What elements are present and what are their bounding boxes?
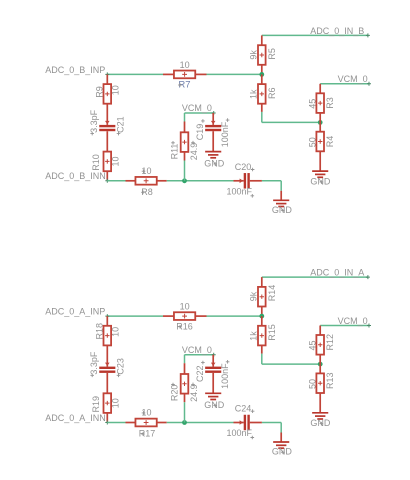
svg-text:C21: C21	[115, 116, 125, 133]
svg-text:R20: R20	[170, 385, 180, 402]
svg-text:24.9: 24.9	[189, 143, 199, 161]
svg-text:R6: R6	[267, 87, 277, 99]
svg-text:C23: C23	[115, 358, 125, 375]
svg-text:R4: R4	[325, 136, 335, 148]
svg-text:R10: R10	[91, 154, 101, 171]
svg-text:1k: 1k	[249, 89, 259, 99]
svg-text:10: 10	[111, 156, 121, 166]
svg-text:R13: R13	[325, 372, 335, 389]
svg-text:1k: 1k	[249, 331, 259, 341]
svg-text:50: 50	[308, 137, 318, 147]
svg-text:R11: R11	[170, 144, 180, 160]
svg-text:C20: C20	[235, 162, 252, 172]
svg-text:VCM_0: VCM_0	[182, 103, 212, 113]
svg-text:ADC_0_B_INN: ADC_0_B_INN	[45, 171, 106, 181]
svg-text:50: 50	[308, 379, 318, 389]
svg-text:10: 10	[180, 302, 190, 312]
svg-text:C22: C22	[195, 365, 205, 382]
svg-text:10: 10	[180, 60, 190, 70]
svg-text:24.9: 24.9	[189, 384, 199, 402]
svg-text:R5: R5	[267, 48, 277, 60]
svg-text:100nF: 100nF	[227, 186, 253, 196]
svg-text:GND: GND	[204, 158, 225, 168]
svg-text:9k: 9k	[249, 50, 259, 60]
svg-text:GND: GND	[310, 176, 331, 186]
svg-text:10: 10	[110, 85, 120, 95]
svg-text:GND: GND	[272, 447, 293, 457]
svg-text:ADC_0_IN_A: ADC_0_IN_A	[310, 268, 364, 278]
svg-text:100nF: 100nF	[220, 363, 230, 389]
svg-text:45: 45	[308, 340, 318, 350]
svg-text:C19: C19	[195, 124, 205, 141]
svg-text:ADC_0_A_INP: ADC_0_A_INP	[45, 307, 105, 317]
svg-text:R18: R18	[94, 323, 104, 340]
svg-text:GND: GND	[272, 205, 293, 215]
svg-text:10: 10	[110, 327, 120, 337]
svg-text:ADC_0_A_INN: ADC_0_A_INN	[45, 413, 106, 423]
svg-text:R19: R19	[91, 396, 101, 413]
svg-text:9k: 9k	[249, 291, 259, 301]
svg-text:R15: R15	[267, 324, 277, 341]
svg-text:3.3pF: 3.3pF	[89, 351, 99, 375]
svg-text:3.3pF: 3.3pF	[89, 109, 99, 133]
svg-text:GND: GND	[204, 400, 225, 410]
svg-text:VCM_0: VCM_0	[338, 74, 368, 84]
svg-text:R9: R9	[94, 86, 104, 98]
svg-text:100nF: 100nF	[227, 428, 253, 438]
svg-text:VCM_0: VCM_0	[338, 316, 368, 326]
svg-text:GND: GND	[310, 418, 331, 428]
svg-text:ADC_0_B_INP: ADC_0_B_INP	[45, 65, 105, 75]
svg-text:C24: C24	[235, 404, 252, 414]
svg-text:45: 45	[308, 99, 318, 109]
svg-text:VCM_0: VCM_0	[182, 345, 212, 355]
svg-text:10: 10	[111, 398, 121, 408]
svg-text:R3: R3	[325, 97, 335, 109]
svg-text:100nF: 100nF	[220, 121, 230, 147]
svg-text:ADC_0_IN_B: ADC_0_IN_B	[310, 26, 364, 36]
svg-text:R12: R12	[325, 334, 335, 351]
svg-text:R14: R14	[267, 285, 277, 302]
